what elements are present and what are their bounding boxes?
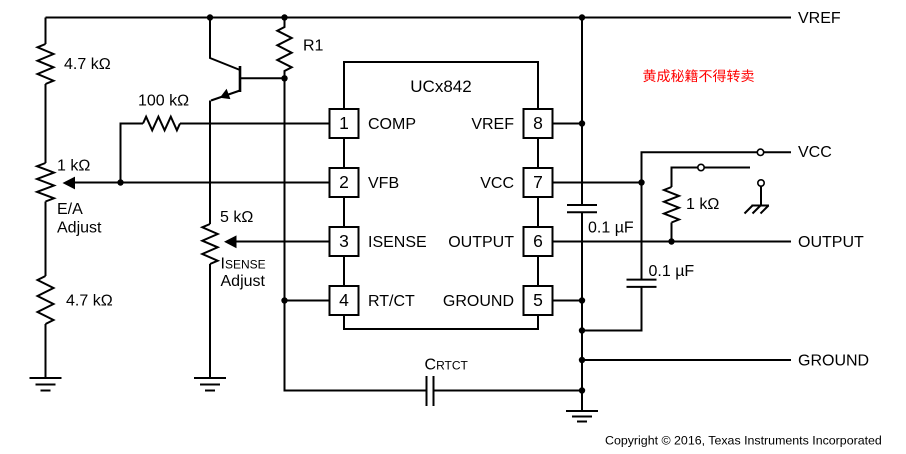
svg-text:0.1 µF: 0.1 µF bbox=[588, 220, 634, 237]
svg-text:VFB: VFB bbox=[368, 175, 399, 192]
svg-text:8: 8 bbox=[533, 113, 543, 133]
svg-text:COMP: COMP bbox=[368, 116, 416, 133]
capacitor C1 0.1uF plates bbox=[567, 205, 597, 212]
wire VREF top rail bbox=[46, 17, 792, 19]
wire pin7 VCC stub bbox=[553, 182, 642, 184]
capacitor CRTCT plates bbox=[427, 376, 434, 406]
resistor R1 bbox=[277, 18, 291, 79]
resistor R2 4.7k upper bbox=[38, 44, 54, 84]
capacitor C2 0.1uF plates bbox=[627, 280, 657, 287]
svg-text:6: 6 bbox=[533, 231, 543, 251]
wire 100k right (zigzag to pin1) bbox=[180, 123, 330, 125]
wire 100k left bend down to VFB bbox=[121, 124, 144, 183]
svg-text:5 kΩ: 5 kΩ bbox=[220, 209, 253, 226]
pin 5 box bbox=[524, 286, 553, 315]
wire VCC switch branch up bbox=[642, 152, 758, 182]
transistor Q1 base wire to R1 node bbox=[240, 77, 285, 79]
svg-text:5: 5 bbox=[533, 290, 543, 310]
svg-text:OUTPUT: OUTPUT bbox=[448, 234, 514, 251]
switch S1 circle bbox=[757, 149, 763, 155]
wire C2 bottom to ground bus bbox=[582, 287, 642, 331]
pin 8 box bbox=[524, 109, 553, 138]
wire R6 bottom to OUTPUT bbox=[671, 223, 673, 242]
pin 7 box bbox=[524, 168, 553, 197]
arrowhead pot R3 wiper bbox=[63, 177, 76, 190]
pin 2 box bbox=[330, 168, 359, 197]
ground bottom (main) bbox=[566, 411, 598, 422]
wire C1 bottom down ground bus bbox=[581, 212, 583, 411]
svg-text:UCx842: UCx842 bbox=[410, 77, 471, 96]
junction node Q1 base / R1 bbox=[281, 75, 287, 81]
junction node pin8 VREF bypass bbox=[579, 120, 585, 126]
svg-text:Copyright © 2016, Texas Instru: Copyright © 2016, Texas Instruments Inco… bbox=[605, 434, 882, 448]
svg-text:E/A: E/A bbox=[57, 201, 83, 218]
svg-text:4.7 kΩ: 4.7 kΩ bbox=[64, 56, 111, 73]
wire R2 bottom to pot R3 top bbox=[45, 84, 47, 163]
svg-text:100 kΩ: 100 kΩ bbox=[138, 93, 189, 110]
switch S2 circle bbox=[698, 164, 704, 170]
junction node VCC branch bbox=[638, 179, 644, 185]
wire left rail top (VREF to R2 top) bbox=[45, 18, 47, 45]
svg-text:VREF: VREF bbox=[471, 116, 514, 133]
wire capacitor C2 top bbox=[641, 183, 643, 280]
pin 1 box bbox=[330, 109, 359, 138]
wire R1 node down to RT/CT and CRTCT bbox=[285, 78, 427, 390]
chassis ground symbol bbox=[745, 206, 770, 214]
wire pot R3 to R4 top bbox=[45, 202, 47, 277]
svg-text:7: 7 bbox=[533, 172, 543, 192]
transistor Q1 base bar bbox=[239, 66, 242, 92]
wire pin8 to VREF bypass node bbox=[553, 123, 583, 125]
wire ISENSE (pin3 to 5k wiper arrow) bbox=[236, 241, 330, 243]
svg-text:VREF: VREF bbox=[798, 10, 841, 27]
junction node top rail at R1 bbox=[281, 14, 287, 20]
wire RT/CT pin4 stub bbox=[285, 300, 330, 302]
svg-text:VCC: VCC bbox=[798, 144, 832, 161]
svg-text:VCC: VCC bbox=[480, 175, 514, 192]
transistor Q1 emitter bbox=[211, 91, 240, 101]
svg-text:Adjust: Adjust bbox=[221, 273, 266, 290]
potentiometer R3 1k E/A Adjust bbox=[37, 163, 54, 202]
wire VREF vertical line to C1 bbox=[581, 18, 583, 206]
svg-text:1: 1 bbox=[339, 113, 349, 133]
svg-text:Adjust: Adjust bbox=[57, 220, 102, 237]
ground left bbox=[30, 378, 62, 391]
wire 1k top bend to switch S2 bbox=[672, 168, 699, 188]
svg-text:GROUND: GROUND bbox=[443, 293, 514, 310]
chassis ground stub bbox=[760, 186, 762, 206]
wire VFB net (pin2 to pot wiper arrow) bbox=[74, 182, 330, 184]
arrowhead Q1 emitter bbox=[220, 89, 231, 99]
svg-text:1 kΩ: 1 kΩ bbox=[686, 196, 719, 213]
svg-text:GROUND: GROUND bbox=[798, 353, 869, 370]
resistor R4 4.7k lower bbox=[38, 276, 54, 324]
pin 4 box bbox=[330, 286, 359, 315]
svg-text:0.1 µF: 0.1 µF bbox=[649, 263, 695, 280]
svg-text:4: 4 bbox=[339, 290, 349, 310]
wire pin5 GROUND stub bbox=[553, 300, 583, 302]
potentiometer R5 5k ISENSE Adjust bbox=[202, 224, 217, 264]
resistor R6 1k bbox=[664, 187, 679, 223]
wire R4 bottom to ground bbox=[45, 324, 47, 378]
junction node C2 ground bbox=[579, 327, 585, 333]
svg-text:CRTCT: CRTCT bbox=[425, 357, 469, 374]
wire CRTCT right to ground node bbox=[434, 390, 583, 392]
junction node 100k / VFB bbox=[117, 179, 123, 185]
wire S1 to VCC label bbox=[764, 151, 792, 153]
resistor R2b 100k bbox=[143, 117, 180, 131]
arrowhead pot R5 wiper bbox=[224, 235, 237, 248]
wire OUTPUT (pin6 to label) bbox=[553, 241, 792, 243]
junction node top rail at VREF line bbox=[579, 14, 585, 20]
transistor Q1 collector wire bbox=[210, 18, 240, 71]
svg-text:ISENSE: ISENSE bbox=[368, 234, 427, 251]
junction node RT/CT bbox=[281, 297, 287, 303]
junction node pin5 ground bbox=[579, 297, 585, 303]
wire GROUND out bbox=[582, 359, 791, 361]
wire S2 right arm bbox=[704, 167, 750, 169]
svg-text:ISENSE: ISENSE bbox=[221, 256, 266, 273]
svg-text:R1: R1 bbox=[303, 38, 324, 55]
junction node GROUND out bbox=[579, 357, 585, 363]
pin 6 box bbox=[524, 227, 553, 256]
ground middle (5k pot) bbox=[194, 378, 226, 391]
junction node top rail at Q1 collector bbox=[207, 14, 213, 20]
svg-text:OUTPUT: OUTPUT bbox=[798, 234, 864, 251]
junction node CRTCT ground bbox=[579, 387, 585, 393]
red watermark text bbox=[643, 69, 754, 82]
svg-text:3: 3 bbox=[339, 231, 349, 251]
pin 3 box bbox=[330, 227, 359, 256]
chassis ground terminal circle bbox=[758, 180, 764, 186]
wire Q1 emitter down to pot R5 bbox=[209, 101, 211, 225]
svg-text:1 kΩ: 1 kΩ bbox=[57, 158, 90, 175]
IC U1 UCx842 body bbox=[344, 62, 538, 329]
svg-text:RT/CT: RT/CT bbox=[368, 293, 415, 310]
junction node R6 OUTPUT bbox=[668, 238, 674, 244]
svg-text:2: 2 bbox=[339, 172, 349, 192]
wire R5 bottom to ground bbox=[209, 264, 211, 378]
svg-text:4.7 kΩ: 4.7 kΩ bbox=[66, 293, 113, 310]
